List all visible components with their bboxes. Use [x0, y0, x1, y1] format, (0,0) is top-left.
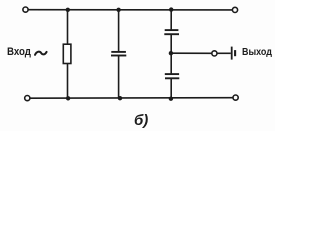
- output jack short bar: [234, 50, 236, 56]
- wire right branch upper: [170, 10, 172, 31]
- wire output tap: [171, 52, 212, 54]
- wire output stub: [217, 52, 231, 54]
- wire capacitor C1 branch upper: [118, 10, 120, 52]
- terminal top-left: [23, 7, 28, 12]
- wire right branch lower: [170, 78, 172, 98]
- terminal output: [212, 51, 217, 56]
- capacitor C2: [164, 30, 179, 34]
- terminal bottom-left: [25, 96, 30, 101]
- node junction top right branch: [169, 7, 173, 11]
- resistor R1: [63, 44, 71, 63]
- node junction bottom right branch: [169, 97, 173, 101]
- wire right branch middle: [170, 34, 172, 74]
- terminal bottom-right: [233, 95, 238, 100]
- node junction top resistor: [66, 8, 70, 12]
- label Вход: [7, 47, 31, 58]
- node junction output tap: [169, 51, 173, 55]
- wire bottom rail: [30, 97, 233, 100]
- label caption б): [134, 112, 148, 129]
- node junction bottom resistor: [66, 96, 70, 100]
- label Выход: [242, 48, 272, 58]
- node junction bottom C1: [118, 96, 122, 100]
- wire resistor branch upper: [67, 10, 69, 45]
- wire resistor branch lower: [67, 63, 69, 98]
- capacitor C3: [165, 74, 180, 78]
- capacitor C1: [111, 52, 126, 56]
- label input tilde: [35, 52, 47, 55]
- output jack long bar: [231, 47, 233, 60]
- wire top rail: [28, 9, 233, 11]
- terminal top-right: [232, 7, 237, 12]
- node junction top C1: [116, 8, 120, 12]
- wire capacitor C1 branch lower: [118, 56, 120, 99]
